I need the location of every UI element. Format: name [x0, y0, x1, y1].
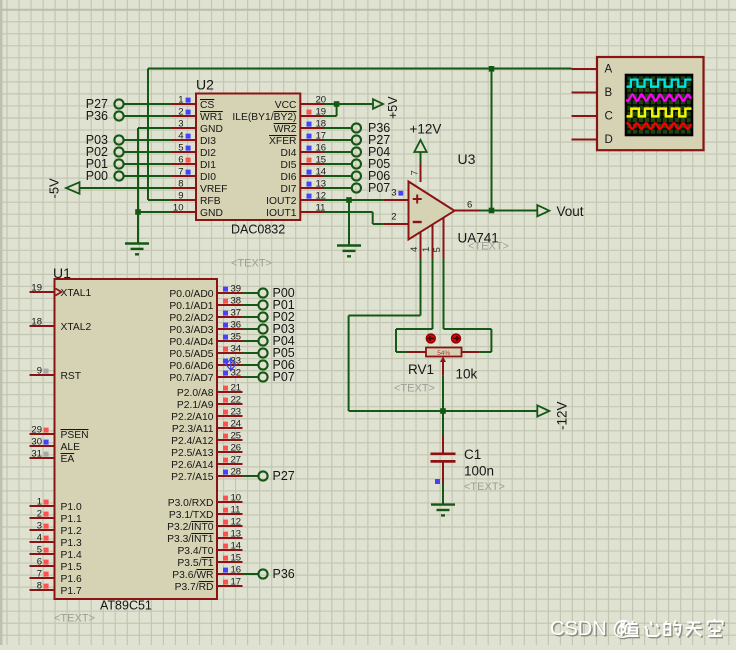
- svg-text:U2: U2: [196, 77, 214, 93]
- svg-text:9: 9: [178, 190, 183, 201]
- svg-text:<TEXT>: <TEXT>: [231, 258, 272, 270]
- svg-text:29: 29: [31, 424, 42, 435]
- svg-text:36: 36: [231, 319, 242, 330]
- svg-text:CS: CS: [200, 100, 214, 111]
- svg-text:28: 28: [231, 466, 242, 477]
- svg-text:WR1: WR1: [200, 112, 223, 123]
- oscilloscope screen: [626, 75, 692, 135]
- junction VCC/ILE: [334, 101, 340, 107]
- svg-text:XTAL1: XTAL1: [61, 288, 92, 299]
- svg-text:PSEN: PSEN: [61, 430, 89, 441]
- svg-text:21: 21: [231, 382, 242, 393]
- svg-text:22: 22: [231, 394, 242, 405]
- svg-text:Vout: Vout: [557, 204, 584, 219]
- svg-text:24: 24: [231, 418, 242, 429]
- op-amp pin 2 (-) lead: [383, 212, 409, 225]
- svg-text:DI7: DI7: [280, 184, 296, 195]
- terminal P06 (right of U2): [324, 169, 390, 183]
- svg-text:DI1: DI1: [200, 160, 216, 171]
- terminal P01 (left of U2): [86, 157, 172, 171]
- svg-text:39: 39: [231, 283, 242, 294]
- terminal P05 (right of U1): [243, 346, 295, 360]
- svg-text:7: 7: [178, 166, 183, 177]
- svg-text:34: 34: [231, 343, 242, 354]
- svg-text:GND: GND: [200, 124, 223, 135]
- svg-text:23: 23: [231, 406, 242, 417]
- terminal P36 (right of U2): [324, 121, 390, 135]
- svg-text:<TEXT>: <TEXT>: [54, 613, 95, 625]
- capacitor C1 100n: [431, 411, 495, 505]
- svg-text:10: 10: [173, 202, 184, 213]
- svg-text:2: 2: [37, 508, 42, 519]
- svg-text:DI5: DI5: [280, 160, 296, 171]
- svg-text:3: 3: [37, 520, 42, 531]
- svg-text:DI3: DI3: [200, 136, 216, 147]
- svg-text:XTAL2: XTAL2: [61, 322, 92, 333]
- svg-text:RST: RST: [61, 371, 82, 382]
- svg-text:GND: GND: [200, 208, 223, 219]
- op-amp pin 5 lead: [432, 218, 444, 259]
- svg-text:P0.4/AD4: P0.4/AD4: [169, 337, 213, 348]
- power terminal +12V: [410, 122, 442, 165]
- svg-text:VCC: VCC: [275, 100, 297, 111]
- wire RV1 wiper down: [442, 376, 444, 411]
- svg-text:10k: 10k: [456, 367, 478, 382]
- svg-text:EA: EA: [61, 454, 75, 465]
- wire pin5 to RV1 right: [444, 259, 492, 353]
- svg-text:P36: P36: [273, 567, 295, 581]
- terminal P03 (left of U2): [86, 133, 172, 147]
- U1 left pins (XTAL1 XTAL2 RST PSEN ALE EA P1.0-P1.7): [30, 282, 92, 597]
- svg-text:7: 7: [409, 170, 420, 175]
- svg-text:XFER: XFER: [269, 136, 296, 147]
- wire -12V rail: [349, 410, 538, 412]
- oscilloscope pin B: [572, 92, 598, 94]
- svg-text:30: 30: [31, 436, 42, 447]
- svg-text:P1.5: P1.5: [61, 562, 82, 573]
- power terminal -12V: [537, 401, 569, 430]
- svg-text:3: 3: [391, 188, 396, 199]
- terminal P36 (left of U2): [86, 109, 172, 123]
- waveform channel B (magenta triangle): [627, 94, 691, 101]
- svg-text:-5V: -5V: [47, 178, 62, 199]
- svg-text:AT89C51: AT89C51: [100, 599, 152, 613]
- terminal P06 (right of U1): [243, 358, 295, 372]
- svg-text:DI4: DI4: [280, 148, 296, 159]
- junction feedback top: [489, 66, 495, 72]
- op-amp pin 6 output lead: [454, 200, 480, 211]
- svg-text:P1.1: P1.1: [61, 514, 82, 525]
- svg-text:38: 38: [231, 295, 242, 306]
- ground (IOUT2): [337, 246, 361, 257]
- svg-text:5: 5: [432, 247, 443, 252]
- svg-text:11: 11: [231, 504, 241, 515]
- svg-text:1: 1: [37, 496, 42, 507]
- svg-text:-12V: -12V: [555, 401, 570, 430]
- junction output: [489, 208, 495, 214]
- U2 chip body DAC0832: [196, 77, 300, 237]
- svg-text:P1.2: P1.2: [61, 526, 82, 537]
- svg-text:DI2: DI2: [200, 148, 216, 159]
- terminal P04 (right of U2): [324, 145, 390, 159]
- op-amp pin 3 (+) lead: [383, 188, 409, 201]
- svg-text:P00: P00: [86, 169, 108, 183]
- svg-text:WR2: WR2: [274, 124, 297, 135]
- terminal P00 (right of U1): [243, 286, 295, 300]
- waveform channel C (yellow square): [627, 109, 692, 117]
- terminal P36 (right of U1): [243, 567, 295, 581]
- svg-text:DI0: DI0: [200, 172, 216, 183]
- svg-text:4: 4: [409, 247, 420, 252]
- svg-text:19: 19: [31, 282, 42, 293]
- svg-text:C1: C1: [464, 447, 481, 462]
- svg-text:3: 3: [178, 118, 183, 129]
- svg-text:13: 13: [231, 528, 242, 539]
- svg-text:5: 5: [37, 544, 42, 555]
- svg-text:6: 6: [467, 200, 472, 211]
- label <TEXT> C1: [464, 481, 505, 493]
- wire IOUT2 to op-amp +: [324, 200, 383, 246]
- svg-text:<TEXT>: <TEXT>: [394, 383, 435, 395]
- svg-text:C: C: [605, 111, 613, 123]
- svg-text:P0.7/AD7: P0.7/AD7: [169, 373, 213, 384]
- op-amp pin 7 V+ lead: [409, 164, 420, 183]
- svg-text:P3.4/T0: P3.4/T0: [177, 546, 213, 557]
- svg-text:17: 17: [231, 576, 242, 587]
- waveform channel D (red sine): [627, 123, 692, 129]
- svg-text:P1.3: P1.3: [61, 538, 82, 549]
- svg-text:CSDN @: CSDN @: [550, 618, 633, 640]
- U1 right pins (P0.x P2.x P3.x): [167, 283, 242, 593]
- svg-text:25: 25: [231, 430, 242, 441]
- svg-text:27: 27: [231, 454, 242, 465]
- svg-text:P2.7/A15: P2.7/A15: [171, 472, 214, 483]
- svg-text:A: A: [605, 64, 613, 76]
- svg-text:P0.2/AD2: P0.2/AD2: [169, 313, 213, 324]
- terminal P00 (left of U2): [86, 169, 172, 183]
- oscilloscope pin C: [572, 115, 598, 117]
- wire output to Vout: [480, 210, 537, 212]
- svg-text:15: 15: [231, 552, 242, 563]
- terminal P05 (right of U2): [324, 157, 390, 171]
- svg-text:D: D: [605, 134, 613, 146]
- svg-text:P0.5/AD5: P0.5/AD5: [169, 349, 213, 360]
- terminal P27 (left of U2): [86, 97, 172, 111]
- svg-text:31: 31: [31, 448, 42, 459]
- wire IOUT1 to op-amp -: [324, 212, 383, 224]
- svg-text:P2.1/A9: P2.1/A9: [177, 400, 214, 411]
- svg-text:<TEXT>: <TEXT>: [464, 481, 505, 493]
- svg-text:VREF: VREF: [200, 184, 227, 195]
- oscilloscope pin A: [572, 68, 598, 70]
- svg-text:P1.0: P1.0: [61, 502, 82, 513]
- svg-text:4: 4: [178, 130, 183, 141]
- wire VCC/ILE net: [324, 104, 373, 116]
- terminal P02 (right of U1): [243, 310, 295, 324]
- svg-text:14: 14: [231, 540, 242, 551]
- svg-text:35: 35: [231, 331, 242, 342]
- svg-text:100n: 100n: [464, 464, 494, 479]
- svg-text:37: 37: [231, 307, 242, 318]
- svg-text:DAC0832: DAC0832: [231, 223, 285, 237]
- svg-text:2: 2: [391, 212, 396, 223]
- svg-text:U3: U3: [458, 151, 476, 167]
- svg-text:12: 12: [231, 516, 242, 527]
- svg-text:9: 9: [37, 365, 42, 376]
- svg-text:P2.6/A14: P2.6/A14: [171, 460, 214, 471]
- cursor artifact: [226, 358, 236, 372]
- power terminal -5V: [47, 178, 173, 199]
- svg-text:4: 4: [37, 532, 42, 543]
- wire feedback vertical: [491, 69, 493, 211]
- svg-text:P3.7/RD: P3.7/RD: [175, 582, 214, 593]
- svg-text:P1.6: P1.6: [61, 574, 82, 585]
- svg-text:ALE: ALE: [61, 442, 81, 453]
- power terminal +5V: [373, 96, 400, 119]
- U1 chip body AT89C51: [53, 265, 217, 613]
- svg-text:54%: 54%: [437, 350, 450, 357]
- terminal P02 (left of U2): [86, 145, 172, 159]
- svg-text:P2.0/A8: P2.0/A8: [177, 388, 214, 399]
- waveform channel A (cyan square): [627, 80, 692, 87]
- terminal P07 (right of U1): [243, 370, 295, 384]
- svg-text:2: 2: [178, 106, 183, 117]
- svg-text:IOUT2: IOUT2: [266, 196, 297, 207]
- svg-text:10: 10: [231, 492, 242, 503]
- svg-text:<TEXT>: <TEXT>: [468, 241, 509, 253]
- svg-text:P1.4: P1.4: [61, 550, 82, 561]
- svg-text:7: 7: [37, 568, 42, 579]
- terminal P03 (right of U1): [243, 322, 295, 336]
- U2 left pins 1-10 (CS WR1 GND DI3 DI2 DI1 DI0 VREF RFB GND): [172, 94, 227, 219]
- svg-text:B: B: [605, 87, 613, 99]
- svg-text:P3.5/T1: P3.5/T1: [177, 558, 213, 569]
- svg-text:RV1: RV1: [408, 362, 434, 377]
- wire pin1 to RV1 left: [396, 259, 433, 353]
- svg-text:5: 5: [178, 142, 183, 153]
- svg-text:P3.1/TXD: P3.1/TXD: [169, 510, 214, 521]
- svg-text:P0.0/AD0: P0.0/AD0: [169, 289, 213, 300]
- junction -12V rail: [440, 408, 446, 414]
- svg-text:18: 18: [31, 316, 42, 327]
- svg-text:+5V: +5V: [386, 96, 400, 119]
- svg-text:1: 1: [178, 94, 183, 105]
- resistor RV1 10k potentiometer: [407, 334, 479, 382]
- svg-text:P27: P27: [273, 469, 295, 483]
- svg-text:P07: P07: [368, 181, 390, 195]
- svg-text:DI6: DI6: [280, 172, 296, 183]
- svg-text:P3.3/INT1: P3.3/INT1: [167, 534, 214, 545]
- svg-text:P3.6/WR: P3.6/WR: [172, 570, 213, 581]
- svg-text:6: 6: [178, 154, 183, 165]
- terminal P27 (right of U1): [243, 469, 295, 483]
- svg-text:P07: P07: [273, 370, 295, 384]
- svg-text:P2.5/A13: P2.5/A13: [171, 448, 214, 459]
- op-amp U3 UA741 triangle: [409, 151, 499, 246]
- svg-text:P2.4/A12: P2.4/A12: [171, 436, 214, 447]
- svg-text:U1: U1: [53, 265, 71, 281]
- svg-text:16: 16: [231, 564, 242, 575]
- terminal P04 (right of U1): [243, 334, 295, 348]
- svg-text:P0.3/AD3: P0.3/AD3: [169, 325, 213, 336]
- svg-text:8: 8: [37, 580, 42, 591]
- svg-text:P0.6/AD6: P0.6/AD6: [169, 361, 213, 372]
- terminal P01 (right of U1): [243, 298, 295, 312]
- oscilloscope body: [597, 57, 704, 150]
- svg-text:P3.2/INT0: P3.2/INT0: [167, 522, 214, 533]
- svg-text:IOUT1: IOUT1: [266, 208, 297, 219]
- svg-text:26: 26: [231, 442, 242, 453]
- watermark CSDN: [550, 618, 724, 642]
- svg-text:RFB: RFB: [200, 196, 221, 207]
- svg-text:1: 1: [421, 247, 432, 252]
- svg-text:ILE(BY1/BY2): ILE(BY1/BY2): [232, 112, 296, 123]
- svg-text:8: 8: [178, 178, 183, 189]
- ground (below U2 left): [125, 244, 149, 255]
- svg-text:6: 6: [37, 556, 42, 567]
- wire U2 GND net: [138, 128, 172, 244]
- svg-text:P2.3/A11: P2.3/A11: [172, 424, 214, 435]
- label <TEXT> under DAC0832: [231, 258, 272, 270]
- terminal P27 (right of U2): [324, 133, 390, 147]
- svg-text:+12V: +12V: [410, 122, 442, 137]
- svg-text:P3.0/RXD: P3.0/RXD: [168, 498, 214, 509]
- terminal P07 (right of U2): [324, 181, 390, 195]
- svg-text:P36: P36: [86, 109, 108, 123]
- terminal Vout: [537, 204, 583, 219]
- U2 right pins 20-11 (VCC ILE WR2 XFER DI4-DI7 IOUT2 IOUT1): [232, 94, 326, 219]
- label <TEXT> RV1: [394, 383, 435, 395]
- wire pin4 to -12V rail: [349, 259, 421, 412]
- wire RFB/output/scope net: [148, 69, 572, 201]
- op-amp pin 4 lead: [409, 232, 421, 259]
- ground (C1): [431, 505, 455, 516]
- svg-text:11: 11: [316, 202, 326, 213]
- label <TEXT> U1: [54, 613, 95, 625]
- junction U2 GND net: [135, 209, 141, 215]
- svg-text:P1.7: P1.7: [61, 586, 82, 597]
- svg-text:P2.2/A10: P2.2/A10: [171, 412, 214, 423]
- op-amp pin 1 lead: [421, 225, 433, 259]
- oscilloscope pin D: [572, 139, 598, 141]
- svg-text:P0.1/AD1: P0.1/AD1: [169, 301, 213, 312]
- label <TEXT> U3: [468, 241, 509, 253]
- junction IOUT2: [346, 197, 352, 203]
